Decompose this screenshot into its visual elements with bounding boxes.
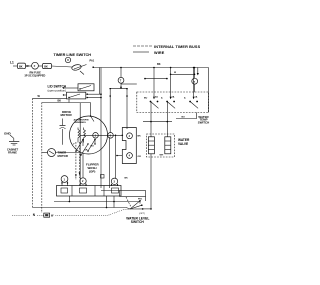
lid switch contact box upper	[78, 84, 94, 91]
svg-text:GND: GND	[4, 131, 12, 135]
ground cabinet frame	[9, 138, 19, 145]
svg-text:3P SC EQUIPPED: 3P SC EQUIPPED	[25, 74, 46, 77]
cabinet frame label	[7, 149, 19, 155]
arrowhead center	[120, 87, 122, 89]
terminal block BK	[18, 63, 26, 69]
wire stub right of relay	[121, 83, 137, 85]
svg-text:TIMER LINE SWITCH: TIMER LINE SWITCH	[54, 53, 92, 57]
junction coil drop	[194, 67, 196, 69]
wire switch 1 to valve	[150, 102, 152, 137]
svg-text:FRAME: FRAME	[8, 152, 17, 155]
svg-text:VALVE: VALVE	[178, 142, 188, 146]
wire bar lower	[144, 78, 168, 80]
terminal 2 lower	[79, 178, 86, 186]
wire drop to lid switch	[98, 68, 100, 95]
wire lower bus	[54, 201, 140, 204]
legend internal timer buss	[133, 45, 201, 49]
terminal 1 lower	[61, 176, 68, 186]
timer cam switch box	[137, 92, 209, 113]
water temp switch label	[198, 115, 210, 125]
svg-text:MOTOR: MOTOR	[58, 154, 68, 158]
timer motor label	[58, 151, 68, 158]
dashed neutral vertical 1	[32, 98, 34, 207]
cam switch 3	[184, 96, 198, 109]
coil M	[192, 78, 198, 92]
wire drop to relay	[120, 68, 122, 78]
wire neutral branch upper	[33, 97, 67, 99]
svg-text:WIRE: WIRE	[154, 51, 165, 55]
relay coil T	[118, 77, 124, 83]
svg-text:L1: L1	[10, 61, 14, 65]
flipper wash label	[86, 163, 100, 174]
svg-text:(OP): (OP)	[89, 170, 95, 174]
neutral dotted run	[56, 209, 131, 215]
svg-text:BK: BK	[44, 65, 48, 68]
terminal 6	[108, 133, 114, 139]
water level switch label	[126, 216, 149, 224]
wire to timer line switch	[52, 66, 73, 67]
main center vertical	[79, 103, 81, 186]
cam switch 2	[161, 96, 175, 109]
wire relay to contact bar	[120, 83, 122, 88]
water valve dashed box	[147, 134, 175, 157]
svg-text:2A: 2A	[172, 96, 175, 99]
internal protector	[60, 119, 66, 145]
agitate winding	[78, 128, 80, 143]
terminal 2	[127, 133, 133, 139]
lid switch contact box lower	[63, 87, 86, 99]
dashed neutral vertical 2	[41, 103, 43, 214]
motor internal wire	[91, 116, 95, 122]
water level switch	[126, 197, 144, 210]
wire bar upper	[170, 74, 196, 76]
terminal 3 lower	[111, 178, 118, 186]
drive motor circle	[70, 116, 108, 154]
wire to motor switch	[80, 134, 122, 136]
fuse caption	[25, 71, 46, 77]
junctions right of lid switch	[86, 93, 101, 98]
strip contacts	[61, 186, 119, 197]
timer line switch cam	[71, 64, 86, 75]
wire lower bus 2	[33, 208, 131, 210]
component stub	[101, 175, 105, 179]
wire valve feed bar	[143, 121, 172, 123]
wire strip drop 2	[106, 196, 108, 208]
wire into motor	[90, 103, 92, 117]
svg-text:SWITCH: SWITCH	[198, 120, 209, 124]
dashed feeds to terminals	[75, 142, 80, 180]
wire lid switch to neutral	[68, 99, 70, 103]
svg-text:MOTOR: MOTOR	[61, 113, 73, 117]
wire strip drop 3	[113, 196, 115, 208]
svg-text:(OPT): (OPT)	[139, 213, 145, 215]
timer line switch terminal	[65, 57, 70, 62]
valve coil cold	[165, 137, 171, 154]
svg-text:BK: BK	[138, 136, 142, 138]
wire neutral branch lower	[42, 102, 91, 104]
valve coil hot	[148, 137, 154, 154]
wire timer motor right	[56, 152, 81, 154]
wire switch 2 to valve	[166, 102, 168, 137]
wire to terminal 4	[116, 155, 122, 157]
lid switch label	[48, 85, 67, 93]
arrowhead right	[126, 88, 128, 90]
wire switch to valve	[143, 208, 152, 210]
junction	[92, 66, 94, 68]
svg-text:6A: 6A	[155, 96, 158, 99]
water valve label	[178, 138, 190, 146]
cam switch 2 feed	[170, 67, 172, 100]
wire contact bar	[110, 88, 128, 90]
svg-text:BK: BK	[19, 66, 23, 69]
wire to terminal 2	[82, 153, 84, 178]
timer boundary right edge	[208, 68, 210, 113]
svg-text:WH: WH	[160, 155, 164, 157]
wire L1 feed	[13, 65, 18, 67]
wire BU jog	[176, 113, 197, 119]
svg-text:(open position): (open position)	[48, 88, 67, 92]
terminal strip	[57, 186, 122, 197]
junction	[122, 135, 124, 137]
wire fuse to block	[38, 65, 42, 67]
wire timer motor left	[42, 152, 48, 154]
wire valve to water level switch	[150, 154, 152, 209]
legend wire	[133, 51, 165, 55]
terminal 1	[93, 133, 99, 139]
timer motor	[48, 149, 56, 157]
motor winding labels	[74, 118, 89, 124]
wire drop with arrowhead right	[197, 68, 199, 76]
motor switch box	[122, 128, 136, 164]
wire drop from contact left	[109, 89, 116, 178]
drive motor label	[61, 110, 73, 117]
svg-text:PA1: PA1	[90, 60, 95, 63]
wire main top bus	[93, 67, 208, 69]
neutral line N	[12, 213, 44, 217]
svg-text:SWITCH: SWITCH	[131, 220, 145, 224]
water level switch housing	[120, 191, 146, 197]
speed switch contacts	[73, 139, 96, 156]
svg-text:BU: BU	[144, 98, 148, 100]
cam switch 3 feed	[193, 67, 195, 100]
junction motor top	[90, 115, 92, 117]
svg-text:BU: BU	[182, 117, 186, 119]
cam switch 1 feed	[153, 67, 155, 100]
wire down from switch	[109, 137, 111, 188]
cam switch 1	[144, 96, 159, 109]
wire strip drop	[68, 196, 70, 202]
wire drop to coil	[194, 68, 196, 79]
spin winding	[84, 128, 86, 143]
svg-text:OR: OR	[84, 150, 88, 152]
neutral terminal box	[44, 213, 50, 217]
gnd arrow	[10, 135, 14, 138]
terminal block BK 2	[43, 63, 52, 68]
svg-text:OR: OR	[138, 156, 142, 158]
wire drop from contact right	[126, 89, 128, 129]
svg-text:INTERNAL TIMER BUSS: INTERNAL TIMER BUSS	[154, 45, 201, 49]
fuse RM	[26, 62, 39, 69]
svg-text:BK: BK	[157, 63, 161, 66]
svg-text:BU: BU	[91, 146, 95, 148]
arrowhead left	[109, 88, 111, 90]
svg-text:BK: BK	[58, 100, 62, 103]
svg-text:BK: BK	[125, 178, 129, 180]
terminal 4	[127, 153, 133, 159]
svg-text:1A: 1A	[195, 96, 198, 99]
timer boundary left edge	[100, 68, 102, 189]
junction at relay drop	[120, 67, 122, 69]
